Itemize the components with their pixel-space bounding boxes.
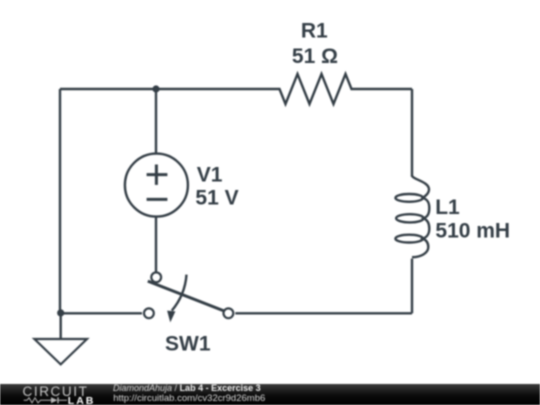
svg-text:V1: V1 — [197, 163, 223, 186]
svg-text:51 V: 51 V — [195, 187, 238, 210]
svg-text:L1: L1 — [435, 196, 460, 219]
svg-text:51 Ω: 51 Ω — [292, 45, 338, 68]
svg-text:SW1: SW1 — [165, 332, 211, 355]
svg-text:LAB: LAB — [68, 395, 96, 405]
svg-text:510 mH: 510 mH — [435, 220, 510, 243]
svg-text:DiamondAhuja / Lab 4 - Excerci: DiamondAhuja / Lab 4 - Excercise 3 — [113, 383, 261, 393]
svg-text:http://circuitlab.com/cv32cr9d: http://circuitlab.com/cv32cr9d26mb6 — [113, 393, 265, 404]
svg-text:R1: R1 — [301, 19, 328, 42]
